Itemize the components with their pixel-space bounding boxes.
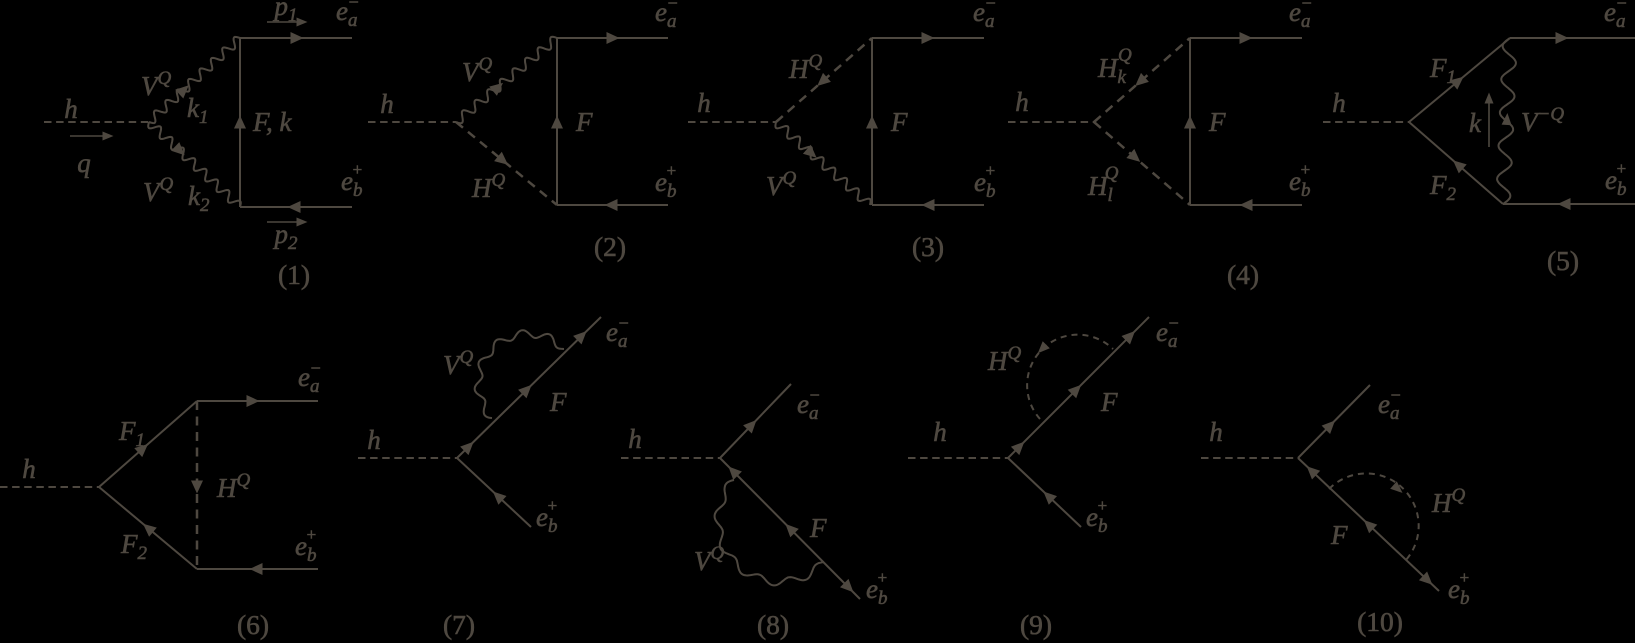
d8 photon loop V^Q (wavy arc) [715,480,824,585]
d5 photon V^-Q (wavy vertical) [1497,38,1516,204]
d3 scalar H^Q upper (dashed) [776,38,872,122]
svg-text:p2: p2 [273,219,299,254]
svg-text:ea−: ea− [1378,385,1402,424]
d6 higgs line h (dashed) [0,486,99,488]
svg-text:VQ: VQ [141,68,172,101]
d3 fermion line F (vertical) [871,38,873,205]
d2 electron line e_a (top) [557,37,668,39]
svg-text:(7): (7) [443,609,475,640]
d3 arrow on photon [803,145,817,158]
svg-text:F: F [1100,387,1118,417]
d10 arrow middle (toward vertex) [1364,520,1378,533]
d4 positron line e_b (bottom) [1190,204,1302,206]
svg-text:eb+: eb+ [341,160,363,201]
svg-text:F: F [1330,520,1348,550]
d6 arrow on top line [247,395,260,407]
svg-text:q: q [77,148,91,178]
d6 arrow on bottom line [250,563,263,575]
svg-text:HkQ: HkQ [1097,45,1132,88]
d1 fermion line F,k (vertical) [239,38,241,207]
svg-text:h: h [1015,87,1029,117]
svg-text:VQ: VQ [462,54,493,87]
d10 higgs line h (dashed) [1201,457,1298,459]
svg-text:(2): (2) [594,231,626,262]
d10 scalar loop H^Q (dashed arc) [1329,473,1419,560]
d5 arrow on F_1 [1450,77,1464,90]
d6 arrow on F_2 (toward vertex) [143,524,157,537]
d10 fermion/positron diagonal line [1298,458,1439,591]
svg-text:F: F [1208,107,1226,137]
d8 arrow near vertex (toward vertex) [728,467,742,481]
svg-text:ea−: ea− [1156,313,1180,352]
d6 fermion F_1 (upper) [99,401,197,487]
svg-text:ea−: ea− [336,0,360,31]
d4 scalar H_k^Q upper (dashed) [1094,38,1190,122]
d2 arrow on scalar [494,152,508,165]
svg-text:HQ: HQ [471,170,506,203]
d9 arrow middle (F) [1068,385,1081,398]
d9 arrow on scalar arc [1038,341,1050,353]
svg-text:F2: F2 [1429,170,1457,205]
d10 electron line e_a (upper) [1298,385,1370,458]
svg-text:ea−: ea− [797,385,821,424]
d2 arrow on top line [607,32,620,44]
svg-text:h: h [367,425,381,455]
d9 arrow on e_b line (toward vertex) [1043,492,1057,505]
svg-text:(8): (8) [757,609,789,640]
d8 fermion/positron diagonal line [720,458,860,599]
d5 arrow on top line [1556,32,1569,44]
d2 higgs line h (dashed) [368,121,456,123]
svg-text:HQ: HQ [987,343,1022,376]
svg-text:ea−: ea− [655,0,679,32]
d8 arrow near end (outgoing) [840,579,853,592]
svg-text:F, k: F, k [252,107,293,137]
d7 fermion/electron diagonal line [457,317,601,458]
svg-text:eb+: eb+ [655,161,677,202]
d7 arrow middle (F) [518,385,532,398]
svg-text:eb+: eb+ [1448,568,1470,609]
svg-text:F2: F2 [120,529,148,564]
d9 fermion/electron diagonal line [1008,317,1149,458]
d8 arrow on e_a line [743,420,756,434]
svg-text:ea−: ea− [973,0,997,32]
svg-text:VQ: VQ [143,174,174,207]
d4 arrow on vertical fermion [1184,116,1196,129]
d10 arrow on e_a line [1322,421,1335,435]
d6 electron line e_a (top) [197,400,318,402]
d6 arrow on scalar (down) [191,481,203,494]
d2 photon V^Q (wavy) [456,37,557,123]
svg-text:V−Q: V−Q [1521,104,1564,137]
svg-text:eb+: eb+ [1086,496,1108,537]
d7 positron line e_b [457,458,531,527]
d1 arrow on lower photon [171,142,185,155]
svg-text:HlQ: HlQ [1087,163,1119,206]
svg-text:(6): (6) [237,609,269,640]
svg-text:eb+: eb+ [1605,159,1627,200]
svg-text:h: h [380,89,394,119]
svg-text:F1: F1 [1429,53,1456,88]
d1 momentum arrow p_2 [267,221,300,223]
d7 arrow near vertex [460,442,474,455]
d4 electron line e_a (top) [1190,37,1302,39]
d3 electron line e_a (top) [872,37,984,39]
svg-text:F: F [575,107,593,137]
d9 arrow near end [1122,331,1136,345]
svg-text:h: h [697,88,711,118]
d5 fermion F_1 (upper) [1409,38,1510,122]
d2 arrow on vertical fermion [551,116,563,129]
d5 arrow on bottom line [1558,198,1571,210]
svg-text:VQ: VQ [694,543,725,576]
d4 fermion line F (vertical) [1189,38,1191,205]
d1 higgs line h (dashed) [44,121,149,123]
d1 momentum arrow p_1 [267,21,300,23]
d10 arrow on scalar arc [1390,481,1402,493]
svg-text:(9): (9) [1020,609,1052,640]
d3 arrow on scalar (toward vertex) [817,73,831,86]
d3 positron line e_b (bottom) [872,204,984,206]
svg-text:eb+: eb+ [1289,160,1311,201]
d1 positron line e_b (bottom) [240,206,352,208]
d6 scalar H^Q (dashed vertical) [196,401,199,569]
d7 higgs line h (dashed) [358,457,457,459]
d5 arrow on F_2 (toward vertex) [1453,160,1467,173]
d8 arrow middle (toward vertex) [785,524,798,537]
d5 electron line e_a (top) [1510,37,1635,39]
svg-text:ea−: ea− [1289,0,1313,32]
d4 arrow on bottom line [1240,199,1253,211]
d6 arrow on F_1 [134,444,148,457]
svg-text:h: h [1332,88,1346,118]
svg-text:F: F [549,387,567,417]
d7 arrow on e_b line (toward vertex) [493,492,507,505]
d4 higgs line h (dashed) [1008,121,1094,123]
d1 momentum arrow q [70,135,106,137]
d1 arrow on top line [291,32,304,44]
d1 arrow on vertical fermion [234,116,246,129]
d9 positron line e_b [1008,458,1081,527]
d3 arrow on vertical fermion [866,116,878,129]
svg-text:F: F [890,107,908,137]
svg-text:k2: k2 [188,181,210,216]
svg-text:(5): (5) [1547,245,1579,276]
svg-text:HQ: HQ [1431,485,1466,518]
svg-text:HQ: HQ [216,470,251,503]
svg-text:F1: F1 [118,416,145,451]
d5 higgs line h (dashed) [1323,121,1409,123]
d9 higgs line h (dashed) [908,457,1008,459]
svg-text:k1: k1 [187,93,208,128]
svg-text:h: h [22,454,36,484]
d3 arrow on top line [922,32,935,44]
svg-text:k: k [1469,108,1482,138]
svg-text:ea−: ea− [1604,0,1628,32]
d4 arrow on lower scalar [1126,149,1140,162]
d2 fermion line F (vertical) [556,38,558,205]
d1 arrow on upper photon [175,85,189,98]
d3 photon V^Q lower (wavy) [775,122,870,205]
svg-text:eb+: eb+ [536,496,558,537]
d2 arrow on bottom line [605,199,618,211]
svg-text:VQ: VQ [766,168,797,201]
svg-text:ea−: ea− [298,358,322,397]
d2 scalar H^Q (dashed) [456,122,557,205]
svg-text:VQ: VQ [443,347,474,380]
d5 fermion F_2 (lower) [1409,122,1503,204]
svg-text:eb+: eb+ [974,161,996,202]
svg-text:h: h [1209,417,1223,447]
d10 arrow near vertex (toward vertex) [1307,466,1321,479]
d1 arrow on bottom line [288,201,301,213]
d5 positron line e_b (bottom) [1503,203,1635,205]
d4 arrow on upper scalar (toward vertex) [1135,73,1149,86]
svg-text:(4): (4) [1227,259,1259,290]
d10 arrow near end (outgoing) [1419,572,1433,585]
d7 photon loop V^Q (wavy arc) [475,330,564,418]
svg-text:ea−: ea− [606,313,630,352]
d3 higgs line h (dashed) [688,121,776,123]
d1 photon V^Q upper (wavy) [149,37,240,123]
d9 arrow near vertex [1011,442,1024,455]
svg-text:HQ: HQ [788,51,823,84]
d8 electron line e_a (upper) [720,384,791,458]
svg-text:(1): (1) [278,259,310,290]
d2 arrow on photon [489,83,503,96]
d7 arrow near end [573,331,587,344]
d1 electron line e_a (top) [240,37,352,39]
d4 arrow on top line [1240,32,1253,44]
d2 positron line e_b (bottom) [557,204,668,206]
d1 photon V^Q lower (wavy) [148,122,241,207]
svg-text:(3): (3) [912,231,944,262]
d6 fermion F_2 (lower) [99,487,197,569]
svg-text:eb+: eb+ [866,568,888,609]
d3 arrow on bottom line [922,199,935,211]
svg-text:h: h [933,417,947,447]
d5 momentum arrow k (up) [1488,100,1490,147]
d5 arrow on photon (up) [1502,113,1512,125]
d9 scalar loop H^Q (dashed arc) [1027,335,1113,419]
svg-text:h: h [64,94,78,124]
d4 scalar H_l^Q lower (dashed) [1094,122,1190,205]
svg-text:eb+: eb+ [295,525,317,566]
svg-text:F: F [809,513,827,543]
d6 positron line e_b (bottom) [197,568,318,570]
svg-text:(10): (10) [1357,606,1403,637]
svg-text:h: h [628,424,642,454]
d8 higgs line h (dashed) [621,457,720,459]
